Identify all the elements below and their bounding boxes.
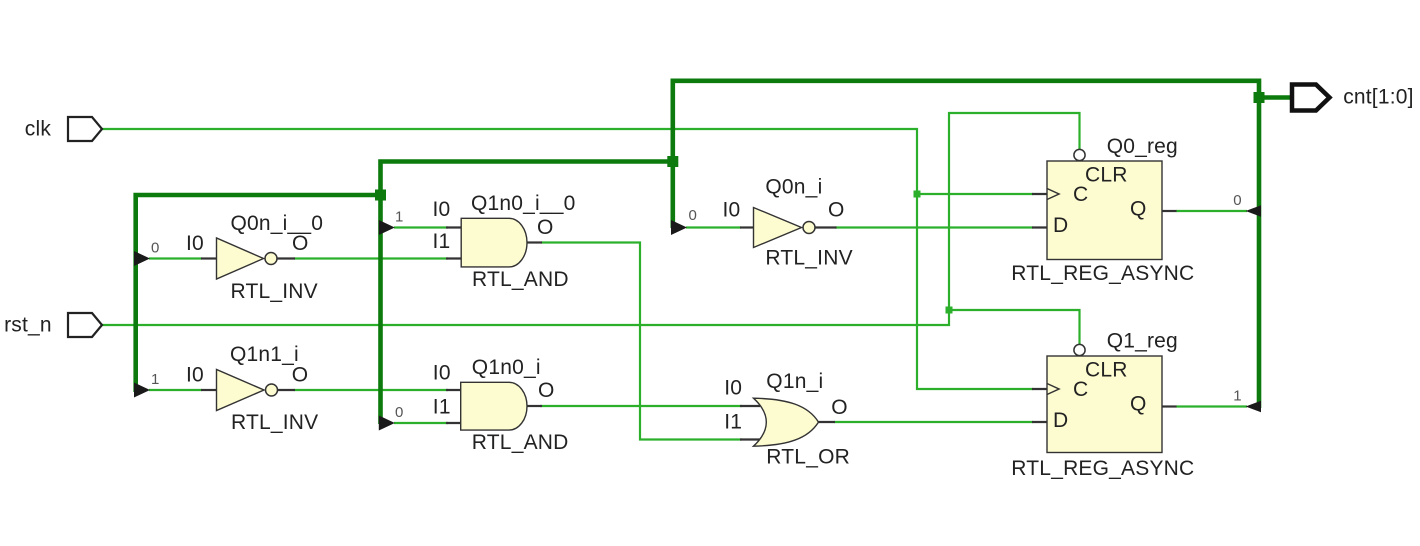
svg-text:rst_n: rst_n <box>4 314 52 337</box>
and gate U2 Q1n0_i__0 body <box>461 218 527 267</box>
svg-text:RTL_INV: RTL_INV <box>231 280 318 303</box>
register Q0_reg output stub Q <box>1162 210 1177 212</box>
svg-text:I1: I1 <box>433 396 451 419</box>
svg-text:I0: I0 <box>186 232 204 255</box>
svg-text:0: 0 <box>151 240 160 257</box>
svg-text:1: 1 <box>395 209 404 226</box>
input port clk <box>68 117 102 141</box>
register Q1_reg output stub Q <box>1162 405 1177 407</box>
register Q0_reg body <box>1047 161 1162 260</box>
register Q0_reg clock wedge <box>1047 189 1059 200</box>
svg-text:Q1n0_i__0: Q1n0_i__0 <box>471 192 576 215</box>
svg-text:I0: I0 <box>433 198 451 221</box>
svg-text:cnt[1:0]: cnt[1:0] <box>1343 86 1413 109</box>
svg-text:Q0n_i: Q0n_i <box>765 175 822 198</box>
svg-text:D: D <box>1053 409 1068 432</box>
svg-text:0: 0 <box>1233 192 1242 209</box>
inverter U3 Q0n_i bubble <box>803 222 815 234</box>
svg-text:Q0n_i__0: Q0n_i__0 <box>231 212 324 235</box>
svg-text:Q1n0_i: Q1n0_i <box>472 356 541 379</box>
or gate U6 Q1n_i input stubs <box>740 406 760 440</box>
svg-text:O: O <box>537 216 554 239</box>
svg-text:0: 0 <box>395 404 404 421</box>
inverter U4 Q1n1_i bubble <box>266 384 278 396</box>
inverter U4 Q1n1_i body <box>217 370 265 411</box>
inverter U1 Q0n_i__0 bubble <box>265 253 277 265</box>
or gate U6 Q1n_i body <box>754 398 819 446</box>
wire clk net <box>102 129 1033 389</box>
bus tap bit1 to Q1n0_i__0 I0 <box>379 220 395 235</box>
bus tap bit0 to Q0n_i <box>671 220 687 235</box>
bus tap bit0 to Q0n_i__0 <box>134 251 150 266</box>
wire rst_n net <box>102 113 1080 345</box>
output port cnt[1:0] <box>1292 85 1330 111</box>
svg-text:I1: I1 <box>724 411 742 434</box>
register Q1_reg body <box>1047 356 1162 453</box>
svg-text:1: 1 <box>1233 388 1242 405</box>
wire Q1n0_i__0 output to OR I1 <box>541 243 742 440</box>
register Q0_reg CLR bubble <box>1074 149 1085 160</box>
svg-text:RTL_OR: RTL_OR <box>766 446 850 469</box>
wire bus bit1 tap to inverter Q1n1_i input <box>149 389 202 391</box>
bus junction at (672,161) <box>667 156 678 167</box>
svg-text:1: 1 <box>151 371 160 388</box>
and gate U5 Q1n0_i input stubs <box>446 390 462 423</box>
bus cnt[1:0] top run and right branch <box>671 81 1293 408</box>
svg-text:Q: Q <box>1130 393 1147 416</box>
wire bus bit1 tap to AND Q1n0_i__0 input I0 <box>394 226 448 228</box>
svg-text:O: O <box>828 199 845 222</box>
inverter U1 Q0n_i__0 output stub O <box>277 257 295 259</box>
svg-text:Q0_reg: Q0_reg <box>1107 135 1178 158</box>
wire Q1n1_i output to AND Q1n0_i input I0 <box>294 389 448 391</box>
bus tap bit0 from Q0_reg Q <box>1246 205 1261 217</box>
wire bus bit0 tap to AND Q1n0_i input I1 <box>394 422 448 424</box>
bus tap bit1 from Q1_reg Q <box>1246 401 1261 413</box>
svg-text:RTL_AND: RTL_AND <box>472 431 569 454</box>
and gate U2 Q1n0_i__0 output stub O <box>527 241 542 243</box>
inverter U3 Q0n_i input stub I0 <box>740 226 754 228</box>
svg-text:I0: I0 <box>186 363 204 386</box>
svg-text:0: 0 <box>689 207 698 224</box>
and gate U5 Q1n0_i body <box>461 382 527 430</box>
wire Q0n net (bus bit0 tap to inverter Q0n_i__0 input) <box>149 257 202 259</box>
svg-text:Q1_reg: Q1_reg <box>1107 330 1178 353</box>
inverter U3 Q0n_i body <box>754 208 802 248</box>
svg-text:I0: I0 <box>724 377 742 400</box>
register Q1_reg CLR bubble <box>1074 344 1085 355</box>
svg-text:RTL_REG_ASYNC: RTL_REG_ASYNC <box>1011 457 1194 480</box>
svg-text:Q: Q <box>1130 198 1147 221</box>
bus tap bit0 to Q1n0_i I1 <box>379 416 395 431</box>
svg-text:I0: I0 <box>723 199 741 222</box>
junction rst_n net at CLR branch <box>946 307 953 314</box>
svg-text:O: O <box>292 232 309 255</box>
inverter U4 Q1n1_i input stub I0 <box>201 389 217 391</box>
inverter U1 Q0n_i__0 body <box>217 238 264 279</box>
svg-text:RTL_REG_ASYNC: RTL_REG_ASYNC <box>1011 262 1194 285</box>
bus junction at (380,195) <box>375 190 386 201</box>
bus cnt[1:0] left branch <box>136 81 673 424</box>
svg-text:O: O <box>831 396 848 419</box>
inverter U1 Q0n_i__0 input stub I0 <box>201 257 217 259</box>
svg-text:RTL_INV: RTL_INV <box>231 411 318 434</box>
inverter U4 Q1n1_i output stub O <box>278 389 296 391</box>
svg-text:O: O <box>292 363 309 386</box>
bus tap bit1 to Q1n1_i <box>134 383 150 398</box>
svg-text:Q1n_i: Q1n_i <box>766 370 823 393</box>
wire bus bit0 tap to inverter Q0n_i input <box>686 226 741 228</box>
junction clk net at C pin branch <box>914 191 921 198</box>
and gate U2 Q1n0_i__0 input stubs <box>446 228 462 259</box>
svg-text:clk: clk <box>25 118 52 141</box>
input port rst_n <box>68 313 102 337</box>
svg-text:RTL_AND: RTL_AND <box>472 268 569 291</box>
svg-text:C: C <box>1073 378 1088 401</box>
and gate U5 Q1n0_i output stub O <box>527 405 542 407</box>
svg-text:O: O <box>538 379 555 402</box>
bus junction at cnt port branch <box>1254 92 1265 103</box>
or gate U6 Q1n_i output stub O <box>819 421 836 423</box>
wire Q0n_i output to Q0_reg D <box>835 226 1033 228</box>
svg-text:Q1n1_i: Q1n1_i <box>230 343 299 366</box>
register Q1_reg clock wedge <box>1047 384 1059 395</box>
svg-text:D: D <box>1053 214 1068 237</box>
wire Q1n_i output to Q1_reg D <box>834 421 1033 423</box>
register Q1_reg input stubs C and D <box>1032 389 1048 422</box>
wire Q0n_i__0 output to AND I1 <box>294 257 448 259</box>
register Q0_reg input stubs C and D <box>1032 194 1048 228</box>
svg-text:RTL_INV: RTL_INV <box>765 246 852 269</box>
wire Q0_reg Q to bus tap bit0 <box>1176 210 1247 212</box>
svg-text:CLR: CLR <box>1085 164 1128 187</box>
svg-text:CLR: CLR <box>1085 359 1128 382</box>
svg-text:I0: I0 <box>433 362 451 385</box>
wire Q1n0_i output to OR I0 <box>540 405 742 407</box>
svg-text:C: C <box>1073 183 1088 206</box>
svg-text:I1: I1 <box>433 230 451 253</box>
inverter U3 Q0n_i output stub O <box>815 226 837 228</box>
wire Q1_reg Q to bus tap bit1 <box>1176 405 1247 407</box>
